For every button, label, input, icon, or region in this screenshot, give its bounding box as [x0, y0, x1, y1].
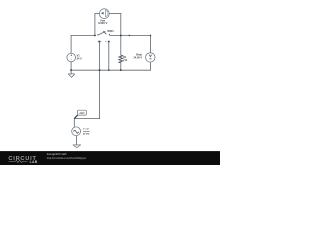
svg-text:24 V: 24 V	[77, 58, 82, 61]
resistor R1	[119, 55, 123, 63]
wire anchor dot on row	[129, 35, 131, 37]
svg-text:0.000 V: 0.000 V	[98, 21, 107, 25]
ground 2	[73, 145, 81, 148]
wire resistor branch vertical	[120, 14, 122, 56]
signal source V_ctrl sine symbol	[74, 130, 79, 133]
wire right branch lower	[150, 62, 152, 70]
svg-text:24.00 V: 24.00 V	[133, 57, 142, 60]
wire right branch upper	[150, 35, 152, 52]
svg-text:2 Ω: 2 Ω	[123, 59, 127, 62]
wire meter loop left horizontal	[95, 13, 100, 15]
battery Vbatt V glyph	[149, 55, 151, 57]
wire left branch lower	[70, 62, 72, 70]
footer bar	[0, 151, 220, 165]
wire resistor bottom stub	[120, 63, 122, 70]
svg-text:LAB: LAB	[30, 160, 38, 164]
battery Vbatt minus glyph	[149, 58, 151, 60]
wire ctrl node vertical from bus	[99, 70, 101, 119]
junction dot at meter left / row	[94, 34, 96, 36]
junction dot bus / resistor	[120, 69, 122, 71]
switch control pin plus side dot	[99, 40, 102, 43]
node flag ctrl pole	[74, 115, 77, 118]
wire meter loop left vertical	[94, 14, 96, 36]
wire ctrl node down to source	[73, 119, 75, 128]
svg-text:V_ctrl: V_ctrl	[83, 127, 89, 130]
wire top row right segment	[110, 34, 150, 36]
wire top row left segment	[71, 34, 95, 36]
voltmeter VM1 inner symbol	[101, 10, 108, 17]
wire switch control pin minus	[108, 41, 110, 70]
wire meter loop right horizontal	[109, 13, 121, 15]
ground 1	[68, 74, 75, 77]
switch SW1	[98, 31, 109, 35]
junction dot bus / left branch	[70, 69, 72, 71]
junction dot bus / ctrl pin plus	[99, 69, 101, 71]
ammeter/voltmeter VM1 body	[99, 9, 109, 19]
svg-text:http://circuitlab.com/c/6svh54: http://circuitlab.com/c/6svh54kj2g1v	[47, 157, 87, 160]
signal source V_ctrl body	[72, 127, 81, 136]
node flag ctrl box	[77, 110, 86, 115]
switch control pin minus side dot	[104, 40, 107, 43]
wire bottom bus	[71, 69, 150, 71]
wire ground 1 stub	[70, 70, 72, 74]
voltage source V1 body	[67, 53, 76, 62]
logo wire line	[9, 160, 28, 162]
wire left branch upper	[70, 35, 72, 53]
wire ctrl node horizontal	[74, 118, 99, 120]
svg-text:darragh123 / lab5: darragh123 / lab5	[47, 153, 67, 156]
svg-text:SW1: SW1	[107, 29, 114, 33]
switch control pin minus top blob	[108, 41, 110, 43]
svg-text:ctrl: ctrl	[79, 111, 84, 115]
wire switch control pin plus	[99, 41, 101, 70]
junction dot at resistor branch / row	[120, 34, 122, 36]
svg-text:square: square	[83, 130, 91, 133]
wire source to ground 2	[75, 136, 77, 145]
corner dot top right	[150, 35, 152, 37]
switch control pin plus top blob	[98, 41, 100, 43]
svg-text:40 kHz: 40 kHz	[83, 133, 90, 136]
battery Vbatt body	[146, 53, 155, 62]
signal source arrow dot	[77, 132, 78, 133]
junction dot bus / ctrl pin minus	[108, 69, 110, 71]
